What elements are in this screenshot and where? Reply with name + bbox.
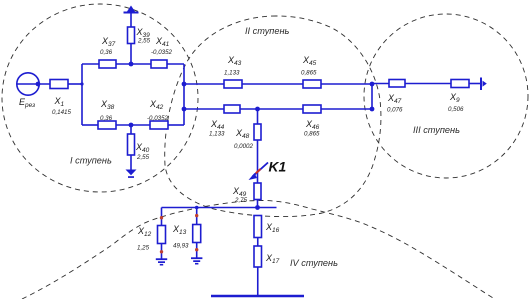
- ground X13: [191, 257, 202, 259]
- wire X41 to right bus: [167, 63, 184, 65]
- stub X12 to ground: [161, 244, 163, 259]
- svg-text:0,36: 0,36: [100, 115, 113, 122]
- drop to X13: [196, 208, 198, 225]
- wire X1 to left bus: [68, 83, 82, 85]
- svg-text:49,93: 49,93: [173, 243, 189, 250]
- svg-text:II ступень: II ступень: [245, 26, 290, 36]
- resistor X17: [254, 246, 262, 267]
- wire X48 to X49 (fault point): [257, 140, 259, 183]
- junction node stage IV bus: [255, 205, 260, 210]
- junction dot at left bus: [80, 82, 83, 85]
- svg-text:0,36: 0,36: [100, 49, 113, 56]
- junction dot X12 drop: [160, 216, 163, 219]
- bottom busbar: [211, 295, 304, 297]
- wire row X43: [184, 83, 224, 85]
- svg-text:1,133: 1,133: [209, 131, 225, 138]
- resistor X48: [254, 124, 261, 140]
- wire row X37: [82, 63, 99, 65]
- resistor X38: [98, 121, 116, 129]
- svg-text:1,25: 1,25: [137, 245, 150, 252]
- stub X39 to ground: [130, 13, 132, 27]
- stub X40 to ground arrow: [130, 155, 132, 170]
- svg-text:0,0002: 0,0002: [234, 143, 253, 150]
- wire row X44: [184, 108, 224, 110]
- resistor X37: [99, 60, 116, 68]
- stage IV boundary curve: [22, 201, 493, 299]
- svg-text:0,1415: 0,1415: [52, 109, 71, 116]
- wire stage III row: [372, 83, 389, 85]
- drop to X12: [161, 208, 163, 226]
- resistor X49: [254, 183, 261, 200]
- wire X45 to right connector: [321, 83, 372, 85]
- junction node X38/X40: [129, 123, 134, 128]
- wire X37-X41: [116, 63, 151, 65]
- resistor X16: [254, 216, 262, 238]
- resistor X44: [224, 105, 240, 113]
- svg-text:IV ступень: IV ступень: [290, 258, 338, 268]
- right bus of stage I: [183, 64, 185, 125]
- resistor X9: [451, 80, 469, 88]
- resistor X13: [193, 225, 201, 243]
- resistor X47: [389, 80, 405, 88]
- wire X44-X46: [240, 108, 303, 110]
- svg-text:-0,0352: -0,0352: [147, 115, 169, 122]
- stage II boundary curve: [165, 16, 381, 217]
- wire X9 to terminal: [469, 83, 481, 85]
- wire X17 to bottom bar: [257, 267, 259, 296]
- svg-text:2,55: 2,55: [136, 154, 150, 161]
- resistor X45: [303, 80, 321, 88]
- EMF source E_rez: [17, 73, 39, 95]
- junction dot EMF output: [36, 82, 41, 87]
- svg-text:0,865: 0,865: [304, 131, 320, 138]
- junction dot X13 ground: [195, 248, 198, 251]
- junction node II-III bottom: [370, 107, 375, 112]
- right connector stage II: [371, 84, 373, 109]
- resistor X40: [128, 134, 135, 155]
- resistor X1: [50, 80, 68, 89]
- resistor X41: [151, 60, 167, 68]
- stub to X40: [130, 125, 132, 134]
- wire X16-X17: [257, 238, 259, 247]
- junction dot X12 ground: [160, 250, 163, 253]
- svg-text:0,506: 0,506: [448, 106, 464, 113]
- svg-text:I ступень: I ступень: [70, 156, 112, 166]
- terminal bar: [480, 78, 482, 91]
- wire X42 to right bus: [168, 124, 184, 126]
- wire X47-X9: [405, 83, 451, 85]
- junction node right bus row1: [182, 82, 187, 87]
- wire row X38: [82, 124, 98, 126]
- resistor X46: [303, 105, 321, 113]
- junction node right bus row2: [182, 107, 187, 112]
- svg-text:0,865: 0,865: [301, 70, 317, 77]
- svg-text:K1: K1: [269, 160, 287, 175]
- svg-text:1,133: 1,133: [224, 70, 240, 77]
- wire X43-X45: [242, 83, 303, 85]
- junction node X48 top: [255, 107, 260, 112]
- stub X13 to ground: [196, 243, 198, 258]
- stage III boundary ellipse: [364, 14, 528, 178]
- K1 fault arrow: [249, 163, 269, 181]
- ground symbol above X39: [124, 12, 139, 14]
- wire X38-X42: [116, 124, 150, 126]
- junction node II-III top: [370, 82, 375, 87]
- left bus: [81, 64, 83, 125]
- junction node X37/X39: [129, 62, 134, 67]
- stage I boundary ellipse: [2, 4, 198, 192]
- resistor X12: [158, 226, 166, 244]
- wire X46 to right connector: [321, 108, 372, 110]
- stub to X39: [130, 44, 132, 65]
- resistor X42: [150, 121, 168, 129]
- svg-text:2,75: 2,75: [234, 197, 248, 204]
- ground X12: [156, 258, 167, 260]
- terminal arrow tip: [483, 81, 487, 87]
- stub to X48: [257, 109, 259, 124]
- stage IV bus: [162, 207, 277, 209]
- wire X49 to bus: [257, 200, 259, 208]
- resistor X43: [224, 80, 242, 88]
- svg-text:-0,0352: -0,0352: [151, 49, 173, 56]
- svg-text:2,55: 2,55: [137, 38, 151, 45]
- resistor X39: [128, 27, 135, 44]
- ground arrow below X40: [126, 170, 137, 176]
- svg-text:0,076: 0,076: [387, 107, 403, 114]
- junction node X13 top: [195, 206, 199, 210]
- svg-text:III ступень: III ступень: [413, 125, 460, 135]
- junction dot X13 drop: [195, 214, 198, 217]
